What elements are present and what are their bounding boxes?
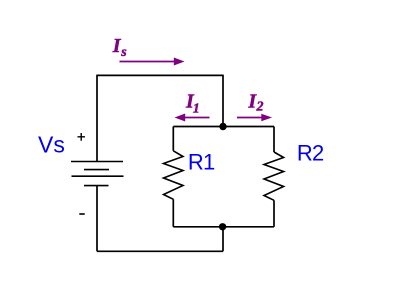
battery Vs plate long top: [71, 161, 123, 163]
svg-text:Vs: Vs: [38, 132, 65, 158]
resistor R2: [264, 152, 284, 200]
wire bottom outer rail: [97, 250, 223, 252]
battery plus sign: [78, 133, 86, 141]
arrow I1 (points left): [184, 117, 210, 119]
wire R2 bottom lead: [273, 200, 275, 227]
wire R2 top lead: [273, 127, 275, 153]
wire right vertical from top rail to node: [222, 75, 224, 127]
wire middle rail between branches: [173, 126, 274, 128]
battery minus sign: [79, 213, 84, 215]
battery Vs plate long: [72, 175, 124, 177]
svg-text:1: 1: [193, 101, 200, 116]
svg-text:I: I: [112, 35, 122, 57]
svg-text:s: s: [120, 45, 127, 60]
svg-text:2: 2: [256, 100, 264, 115]
wire top rail: [97, 74, 223, 76]
node bottom junction dot: [219, 223, 226, 230]
node top junction dot: [219, 123, 226, 130]
svg-text:R2: R2: [297, 141, 324, 166]
wire R1 top lead: [172, 127, 174, 151]
battery Vs plate short: [84, 169, 109, 171]
arrow I2 (points right): [237, 117, 263, 119]
wire R1 bottom lead: [172, 199, 174, 227]
resistor R1: [164, 151, 184, 200]
battery Vs plate short bottom: [84, 185, 109, 187]
wire node drop to bottom rail: [222, 227, 224, 252]
wire battery bottom lead: [96, 186, 98, 252]
wire left vertical (battery top lead): [96, 75, 98, 162]
svg-text:R1: R1: [188, 150, 215, 175]
arrow Is: [120, 61, 176, 63]
wire bottom inner rail: [173, 226, 274, 228]
